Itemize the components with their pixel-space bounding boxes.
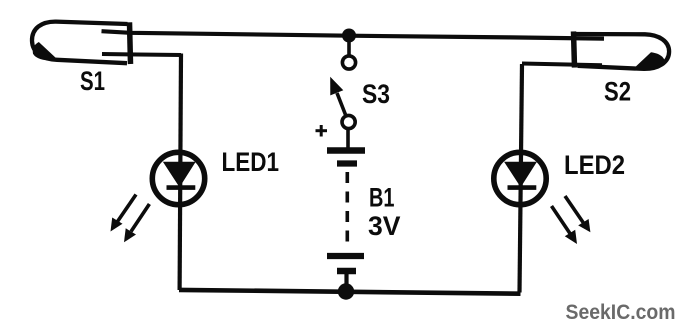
wire: stub from top junction to S3 top terminal xyxy=(347,35,351,56)
LED2 emission arrow a xyxy=(552,206,578,244)
battery B1 dashed cell link xyxy=(345,172,349,248)
LED1 diode triangle xyxy=(164,162,195,186)
switch S3 top terminal xyxy=(342,56,355,69)
mercury blob of S2 xyxy=(633,52,665,69)
battery B1 top long plate (+) xyxy=(327,147,365,154)
wire: S1 bottom lead xyxy=(102,54,181,55)
LED2 circle xyxy=(494,152,546,204)
switch S3 arm xyxy=(337,93,346,116)
LED1 emission arrow b xyxy=(124,204,149,242)
LED1 circle xyxy=(152,152,204,204)
wire: top horizontal bus from S1 to S2 xyxy=(102,31,605,38)
wire: stub from S3 to battery top plate xyxy=(346,128,350,148)
LED2 cathode bar xyxy=(508,185,537,190)
svg-text:3V: 3V xyxy=(368,211,401,241)
mercury blob of S1 xyxy=(33,42,59,61)
wire: stub from battery to bottom junction xyxy=(344,274,348,289)
svg-text:S3: S3 xyxy=(362,79,390,109)
battery plus sign xyxy=(316,125,328,137)
LED1 emission arrow a xyxy=(111,195,137,232)
svg-text:B1: B1 xyxy=(369,182,395,212)
wire: S2 bottom lead xyxy=(522,64,602,66)
tilt switch S2 body (capsule outline) xyxy=(575,34,670,69)
battery B1 top short plate xyxy=(337,160,357,166)
LED1 cathode bar xyxy=(167,185,196,190)
wire: right vertical branch through LED2 xyxy=(520,64,523,293)
svg-text:S2: S2 xyxy=(604,77,631,107)
LED2 emission arrow b xyxy=(565,196,590,232)
battery B1 bottom short plate (-) xyxy=(337,268,356,275)
tilt switch S1 body (capsule outline) xyxy=(32,22,128,64)
switch S3 arm arrowhead xyxy=(330,77,343,96)
battery B1 bottom long plate xyxy=(327,253,364,259)
junction node: top of S3/battery branch xyxy=(342,29,356,43)
switch S3 bottom terminal xyxy=(342,115,355,128)
LED2 diode triangle xyxy=(505,162,536,186)
tilt switch S1 end cap bar xyxy=(130,22,131,64)
wire: bottom horizontal bus xyxy=(179,290,521,294)
svg-text:LED1: LED1 xyxy=(222,147,280,177)
tilt switch S2 end cap bar xyxy=(574,31,575,67)
svg-text:SeekIC.com: SeekIC.com xyxy=(566,301,676,324)
svg-text:S1: S1 xyxy=(80,66,105,96)
junction node: bottom of battery branch xyxy=(338,283,354,299)
wire: left vertical branch through LED1 xyxy=(180,54,181,291)
svg-text:LED2: LED2 xyxy=(564,150,625,180)
